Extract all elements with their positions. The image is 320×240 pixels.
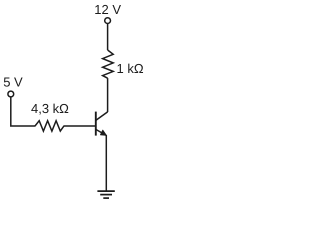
wire emitter	[105, 135, 107, 191]
svg-text:12 V: 12 V	[94, 2, 121, 17]
terminal 5 V	[8, 91, 14, 97]
ground	[97, 191, 114, 198]
svg-text:4,3 kΩ: 4,3 kΩ	[31, 101, 69, 116]
wire input down	[11, 97, 36, 126]
transistor Q1 (NPN)	[96, 112, 108, 136]
svg-text:1 kΩ: 1 kΩ	[117, 61, 144, 76]
svg-text:5 V: 5 V	[3, 74, 23, 89]
wire supply to resistor	[107, 24, 109, 50]
terminal 12 V	[105, 18, 111, 24]
wire base	[64, 125, 96, 127]
wire collector	[107, 78, 109, 112]
resistor 1 kΩ	[103, 50, 114, 78]
resistor 4,3 kΩ	[35, 121, 64, 131]
